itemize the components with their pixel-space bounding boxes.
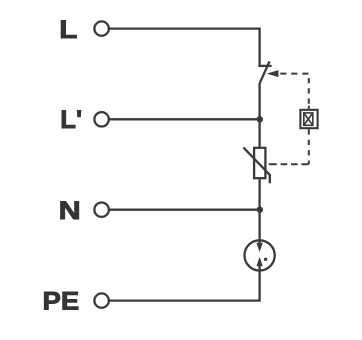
- svg-text:PE: PE: [43, 287, 80, 315]
- svg-text:N: N: [59, 197, 81, 225]
- svg-text:L: L: [59, 16, 77, 44]
- svg-text:L': L': [60, 106, 82, 134]
